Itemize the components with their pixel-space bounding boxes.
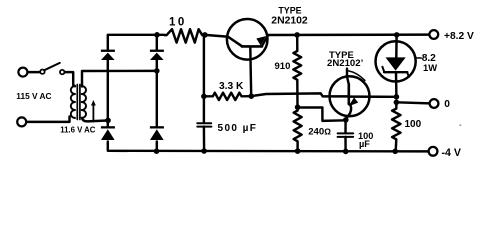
- svg-text:0: 0: [444, 99, 450, 110]
- svg-text:-4 V: -4 V: [442, 147, 461, 159]
- svg-text:100: 100: [405, 119, 422, 130]
- svg-text:3.3 K: 3.3 K: [219, 81, 244, 92]
- svg-text:µF: µF: [359, 139, 370, 149]
- svg-text:240Ω: 240Ω: [308, 127, 331, 138]
- svg-text:2N2102’: 2N2102’: [327, 58, 364, 69]
- svg-text:11.6 V AC: 11.6 V AC: [60, 126, 96, 135]
- svg-text:1W: 1W: [423, 62, 437, 73]
- svg-text:10: 10: [169, 17, 187, 29]
- svg-text:115 V AC: 115 V AC: [16, 91, 51, 101]
- svg-text:2N2102: 2N2102: [271, 15, 308, 26]
- svg-text:500 µF: 500 µF: [218, 123, 258, 134]
- svg-text:+8.2 V: +8.2 V: [444, 31, 474, 42]
- svg-text:910: 910: [275, 61, 291, 72]
- svg-text:TYPE: TYPE: [278, 6, 301, 16]
